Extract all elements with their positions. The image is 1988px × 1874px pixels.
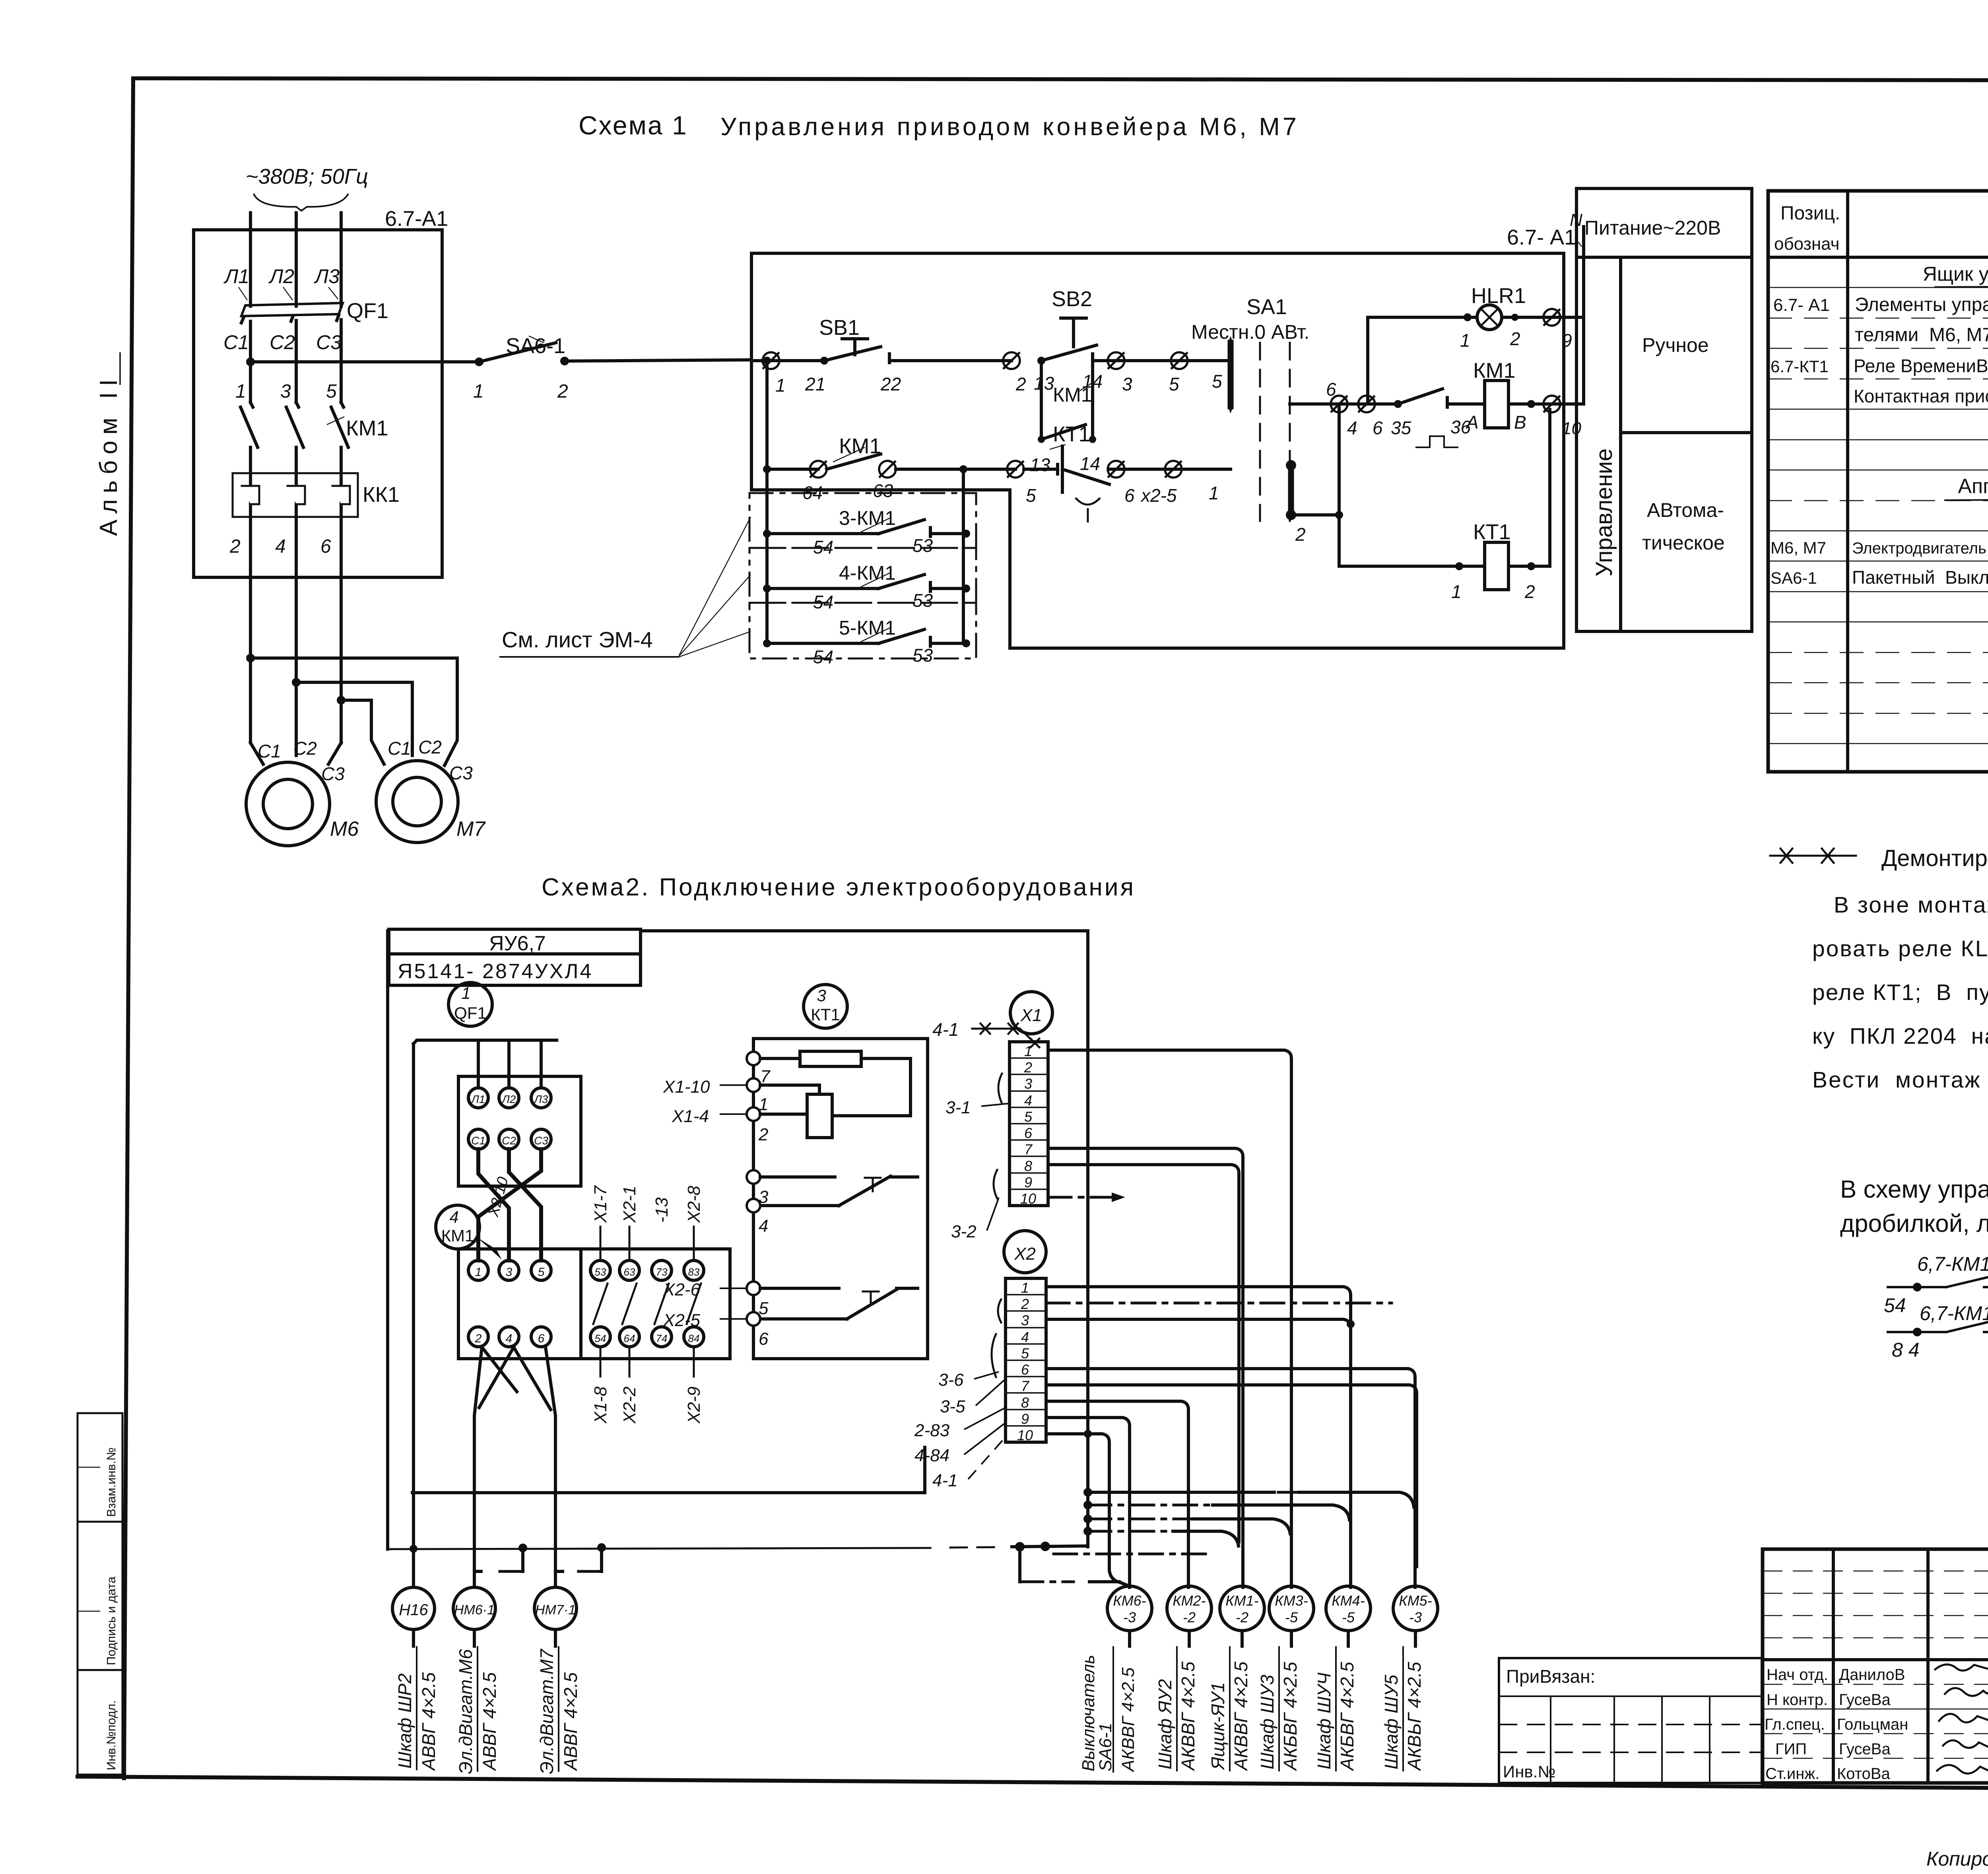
svg-text:Позиц.: Позиц. xyxy=(1780,203,1840,224)
svg-text:Аппаратура по месту: Аппаратура по месту xyxy=(1958,475,1988,498)
svg-text:Шкаф ШУ5: Шкаф ШУ5 xyxy=(1381,1674,1402,1769)
power supply header box xyxy=(1576,188,1752,257)
wire control tap xyxy=(250,360,479,363)
svg-text:1: 1 xyxy=(475,1266,482,1279)
svg-text:Инв.№подл.: Инв.№подл. xyxy=(104,1700,118,1770)
svg-text:ГусеВа: ГусеВа xyxy=(1839,1691,1891,1709)
resistor xyxy=(760,1051,911,1116)
cable label KM2-2 xyxy=(1155,1646,1198,1771)
wire M7 feed C1 xyxy=(341,700,384,764)
svg-text:83: 83 xyxy=(688,1266,700,1278)
dashed box 3-KM1 xyxy=(749,493,976,557)
svg-text:54: 54 xyxy=(813,647,833,667)
svg-text:~380В; 50Гц: ~380В; 50Гц xyxy=(246,165,368,188)
terminal 9 xyxy=(1543,309,1584,351)
svg-text:КМ1: КМ1 xyxy=(346,416,388,440)
svg-text:Х2-5: Х2-5 xyxy=(663,1311,700,1330)
cable label KM5-3 xyxy=(1381,1646,1425,1771)
svg-text:Схема2. Подключение электрообо: Схема2. Подключение электрооборудования xyxy=(542,874,1136,901)
svg-text:9: 9 xyxy=(1562,330,1572,351)
label 3-2 xyxy=(951,1170,999,1241)
svg-text:35: 35 xyxy=(1391,418,1411,438)
svg-text:3: 3 xyxy=(506,1266,513,1279)
svg-text:Шкаф ШУЧ: Шкаф ШУЧ xyxy=(1314,1672,1334,1769)
svg-text:1: 1 xyxy=(461,984,470,1002)
svg-text:-2: -2 xyxy=(1183,1609,1196,1625)
svg-text:63: 63 xyxy=(624,1266,635,1278)
note paragraph xyxy=(1812,892,1988,1093)
terminal labels C1 C2 C3 xyxy=(223,331,342,353)
svg-text:С1: С1 xyxy=(388,738,411,759)
svg-text:5: 5 xyxy=(1169,374,1179,394)
svg-text:ровать реле КL1, Вместо него у: ровать реле КL1, Вместо него устаноВить xyxy=(1812,936,1988,961)
svg-text:Эл.дВигат.М6: Эл.дВигат.М6 xyxy=(455,1649,476,1774)
svg-text:Местн.0 АВт.: Местн.0 АВт. xyxy=(1191,321,1309,343)
svg-text:74: 74 xyxy=(656,1332,668,1344)
svg-text:Гл.спец.: Гл.спец. xyxy=(1765,1716,1825,1733)
wire QF1 to KM1 bundle xyxy=(478,1149,541,1260)
relay KT1 detail box xyxy=(753,1039,928,1359)
wire feed horizontal xyxy=(414,1040,557,1044)
wire X2-9 xyxy=(1046,1418,1130,1587)
wire X1-8 xyxy=(1048,1165,1239,1542)
svg-text:2: 2 xyxy=(1024,1059,1032,1076)
svg-text:Х1-8: Х1-8 xyxy=(591,1387,610,1424)
left margin stamp column xyxy=(78,1413,122,1775)
parts row: motors M6 M7 xyxy=(1771,537,1988,557)
parts row: 6.7-A1 xyxy=(1773,294,1988,346)
svg-text:АВВГ 4×2.5: АВВГ 4×2.5 xyxy=(560,1672,581,1771)
svg-text:4: 4 xyxy=(449,1208,458,1226)
svg-text:SА6-1: SА6-1 xyxy=(506,334,565,358)
svg-text:3-6: 3-6 xyxy=(938,1370,964,1390)
svg-text:1: 1 xyxy=(1024,1043,1032,1059)
motor M6 xyxy=(246,738,359,846)
KT1 terminal 1 xyxy=(663,1077,768,1114)
svg-text:С2: С2 xyxy=(293,738,317,759)
svg-text:3: 3 xyxy=(280,381,291,402)
terminal 6 auto xyxy=(1358,396,1383,438)
wire H16 drop xyxy=(412,1044,415,1587)
svg-text:10: 10 xyxy=(1017,1427,1033,1443)
svg-text:Х2-9: Х2-9 xyxy=(684,1387,704,1424)
svg-text:3-КМ1: 3-КМ1 xyxy=(839,507,896,529)
svg-text:АВтома-: АВтома- xyxy=(1647,499,1724,521)
svg-text:Управление: Управление xyxy=(1591,449,1617,577)
svg-text:2: 2 xyxy=(1015,374,1026,394)
svg-text:ГусеВа: ГусеВа xyxy=(1839,1740,1891,1758)
terminal 10 xyxy=(1543,396,1584,438)
connector X2 callout xyxy=(1004,1231,1046,1273)
svg-text:1: 1 xyxy=(473,381,484,402)
connector X1 callout xyxy=(1010,992,1052,1034)
wire phase L1 upper xyxy=(249,213,252,306)
svg-text:2: 2 xyxy=(1021,1296,1029,1312)
svg-text:6: 6 xyxy=(1021,1361,1029,1378)
svg-text:-3: -3 xyxy=(1123,1609,1136,1625)
svg-text:Л3: Л3 xyxy=(534,1093,548,1105)
wire X2-1 xyxy=(1046,1287,1351,1587)
svg-text:6.7- А1: 6.7- А1 xyxy=(1507,225,1576,249)
svg-text:М7: М7 xyxy=(456,818,486,841)
contactor KM1 holding contact xyxy=(1030,361,1100,475)
svg-text:Контактная приставка ПКЛ-4004: Контактная приставка ПКЛ-4004 xyxy=(1854,386,1988,406)
svg-text:SВ2: SВ2 xyxy=(1052,287,1092,311)
svg-text:М6, М7: М6, М7 xyxy=(1771,538,1826,557)
svg-text:4: 4 xyxy=(1021,1329,1029,1345)
svg-text:КМ2-: КМ2- xyxy=(1173,1592,1206,1609)
svg-text:КК1: КК1 xyxy=(363,483,400,507)
svg-text:Инв.№: Инв.№ xyxy=(1503,1762,1555,1781)
KT1 terminal 4 xyxy=(747,1199,768,1236)
lamp HLR1 xyxy=(1471,284,1552,349)
wire M7 feed C3 xyxy=(250,658,457,765)
svg-text:3-5: 3-5 xyxy=(940,1397,965,1416)
callout KM1 xyxy=(436,1205,502,1260)
svg-text:54: 54 xyxy=(595,1332,606,1344)
svg-text:АКВВГ 4×2.5: АКВВГ 4×2.5 xyxy=(1118,1667,1138,1773)
svg-text:Х1-7: Х1-7 xyxy=(591,1185,610,1223)
svg-text:4-1: 4-1 xyxy=(932,1471,958,1490)
svg-text:дробилкой, лист ЭМ-3: дробилкой, лист ЭМ-3 xyxy=(1840,1210,1988,1237)
svg-text:ПриВязан:: ПриВязан: xyxy=(1506,1666,1595,1687)
label 3-6 xyxy=(938,1299,1001,1390)
svg-text:Схема 1: Схема 1 xyxy=(579,111,688,140)
svg-text:КМ5-: КМ5- xyxy=(1399,1592,1432,1609)
wire phase segments below QF1 xyxy=(250,320,341,402)
svg-text:6: 6 xyxy=(759,1329,769,1349)
svg-text:С2: С2 xyxy=(418,737,442,757)
svg-text:ДанилоВ: ДанилоВ xyxy=(1839,1666,1905,1684)
svg-text:Н16: Н16 xyxy=(399,1601,428,1619)
svg-text:Л1: Л1 xyxy=(223,265,249,287)
svg-text:53: 53 xyxy=(912,590,933,611)
svg-text:1: 1 xyxy=(1451,581,1462,602)
parts row: 6.7-KT1 xyxy=(1771,355,1988,376)
svg-text:Н контр.: Н контр. xyxy=(1767,1691,1828,1709)
svg-text:3-1: 3-1 xyxy=(945,1098,971,1117)
svg-text:Л3: Л3 xyxy=(314,265,340,287)
svg-text:Л1: Л1 xyxy=(471,1093,485,1105)
svg-text:5: 5 xyxy=(1021,1345,1029,1361)
cable label H16 xyxy=(394,1646,439,1771)
svg-text:-5: -5 xyxy=(1342,1609,1355,1625)
KT1 terminal 3 xyxy=(747,1170,769,1207)
bus demontage 2 xyxy=(1083,1501,1349,1520)
svg-text:3-2: 3-2 xyxy=(951,1222,977,1241)
svg-text:9: 9 xyxy=(1021,1411,1029,1427)
svg-text:В схему упраВления: В схему упраВления xyxy=(1840,1176,1988,1203)
svg-text:53: 53 xyxy=(912,535,933,556)
svg-text:АКБВГ 4×2.5: АКБВГ 4×2.5 xyxy=(1337,1662,1357,1771)
svg-text:Вести монтаж согласно схем: Вести монтаж согласно схеме 2 xyxy=(1812,1067,1988,1093)
svg-text:6.7-КТ1: 6.7-КТ1 xyxy=(1771,357,1829,376)
label 3-1 xyxy=(945,1074,1010,1117)
label 4-84 xyxy=(914,1423,1006,1465)
title block outline xyxy=(1763,1549,1988,1783)
dashed box 4-KM1 xyxy=(749,548,976,612)
box header YaU6,7 xyxy=(389,929,641,955)
cable circle H16 xyxy=(392,1587,435,1646)
svg-text:КМ6-: КМ6- xyxy=(1113,1592,1146,1609)
svg-text:53: 53 xyxy=(912,645,933,666)
KT1 terminal 7 xyxy=(747,1052,771,1086)
wire KM1 to NM6 xyxy=(474,1347,514,1587)
svg-text:6: 6 xyxy=(1124,485,1135,506)
wire SA1 jumper xyxy=(1291,513,1339,517)
svg-text:7: 7 xyxy=(1021,1378,1030,1394)
cable circle KM5-3 xyxy=(1393,1586,1438,1646)
svg-text:Л2: Л2 xyxy=(501,1093,516,1105)
KT1 terminal 2 xyxy=(672,1107,807,1144)
terminal labels L1 L2 L3 xyxy=(223,265,340,300)
svg-text:Взам.инв.№: Взам.инв.№ xyxy=(104,1447,118,1517)
motor M7 xyxy=(376,737,486,843)
pole numbers 2 4 6 xyxy=(229,536,331,557)
control box 6.7-A1 outline xyxy=(751,225,1576,648)
svg-text:Х1-4: Х1-4 xyxy=(672,1107,709,1126)
svg-text:С3: С3 xyxy=(449,763,473,783)
parts row: control box title xyxy=(1923,263,1988,287)
schema 2 title xyxy=(542,874,1136,901)
svg-text:54: 54 xyxy=(1884,1294,1906,1317)
svg-text:х2-5: х2-5 xyxy=(1140,485,1177,506)
svg-text:В зоне монтажа В ящике ЯУ6, 7:: В зоне монтажа В ящике ЯУ6, 7: демонти- xyxy=(1834,892,1988,918)
connector X2 strip xyxy=(1006,1278,1046,1443)
terminal 5 xyxy=(1169,352,1222,394)
title block revision rows xyxy=(1763,1571,1988,1758)
svg-text:Копировал: Бабаева: Копировал: Бабаева xyxy=(1926,1848,1988,1870)
svg-text:КМ1: КМ1 xyxy=(441,1226,474,1245)
svg-text:В: В xyxy=(1514,412,1526,433)
svg-text:Управления приводом конвейера: Управления приводом конвейера М6, М7 xyxy=(720,113,1299,141)
KM1 terminal box xyxy=(458,1249,581,1359)
KT1 break contact xyxy=(760,1176,918,1206)
svg-text:Подпись и дата: Подпись и дата xyxy=(104,1576,118,1665)
pole numbers 1 3 5 xyxy=(235,381,337,402)
svg-text:6.7-А1: 6.7-А1 xyxy=(385,207,448,231)
wire phase 2 to motors xyxy=(292,577,301,755)
cable circle KM4-5 xyxy=(1326,1586,1371,1646)
wire to terminal 6 xyxy=(1339,402,1367,406)
svg-text:4-1: 4-1 xyxy=(932,1019,959,1040)
terminal 5 rung2 xyxy=(1007,461,1036,506)
wire rung2 to X2-5 xyxy=(1116,468,1231,471)
svg-text:Нач отд.: Нач отд. xyxy=(1767,1666,1828,1684)
svg-text:6: 6 xyxy=(320,536,331,557)
svg-text:64: 64 xyxy=(624,1332,635,1344)
svg-text:5: 5 xyxy=(1026,485,1036,506)
svg-text:2: 2 xyxy=(1510,328,1520,349)
svg-text:Выключатель: Выключатель xyxy=(1079,1655,1098,1771)
contact 6.7-KM1 upper xyxy=(1884,1253,1988,1317)
svg-text:6,7-КМ1: 6,7-КМ1 xyxy=(1920,1302,1988,1324)
see sheet EM-4 note xyxy=(499,517,751,657)
svg-text:НLR1: НLR1 xyxy=(1471,284,1526,308)
coil KT1 detail xyxy=(760,1085,911,1138)
node on phase 1 xyxy=(246,357,255,366)
box 6.7-A1 xyxy=(194,207,448,577)
time relay KT1 closing contact xyxy=(1367,389,1485,447)
svg-text:Х1-10: Х1-10 xyxy=(663,1077,710,1097)
cable label KM3-5 xyxy=(1257,1646,1301,1771)
svg-text:КТ1: КТ1 xyxy=(1473,520,1510,544)
svg-text:С1: С1 xyxy=(223,331,249,353)
svg-text:SА1: SА1 xyxy=(1246,295,1287,319)
cable label KM1-2 xyxy=(1208,1646,1251,1771)
svg-text:9: 9 xyxy=(1024,1174,1032,1190)
bus demontage 1 xyxy=(1083,1488,1414,1507)
svg-text:Шкаф ЯУ2: Шкаф ЯУ2 xyxy=(1155,1679,1175,1769)
parts table outline xyxy=(1768,191,1988,772)
coil KT1 xyxy=(1473,410,1550,602)
svg-text:Х2-6: Х2-6 xyxy=(663,1280,700,1299)
KM1 aux contact box xyxy=(581,1249,730,1359)
wire X1-7 xyxy=(1048,1148,1243,1587)
svg-text:4: 4 xyxy=(1347,418,1357,438)
wire phase segments below KM1 xyxy=(250,447,341,577)
supply label ~380V 50Hz xyxy=(246,165,368,211)
button SB2 xyxy=(1034,287,1116,394)
svg-text:Шкаф ШУ3: Шкаф ШУ3 xyxy=(1257,1674,1277,1769)
svg-text:КотоВа: КотоВа xyxy=(1837,1765,1890,1783)
svg-text:2: 2 xyxy=(1524,581,1535,602)
terminal 4 xyxy=(1331,396,1357,438)
cable circle KM6-3 xyxy=(1107,1586,1152,1646)
label 3-5 xyxy=(940,1379,1006,1416)
connector X1 strip xyxy=(1010,1042,1048,1207)
wire main rung xyxy=(751,359,824,362)
aux labels bottom xyxy=(591,1348,704,1424)
svg-text:2: 2 xyxy=(229,536,241,557)
svg-text:73: 73 xyxy=(656,1266,668,1278)
wire 4-1 demontage xyxy=(932,1019,1039,1047)
svg-text:3: 3 xyxy=(1021,1312,1029,1328)
svg-text:Х2: Х2 xyxy=(1014,1244,1036,1264)
svg-text:См. лист ЭМ-4: См. лист ЭМ-4 xyxy=(502,627,653,652)
cable label KM4-5 xyxy=(1314,1646,1357,1771)
svg-text:6,7-КМ1: 6,7-КМ1 xyxy=(1917,1253,1988,1275)
svg-text:Электродвигатель 4А80А6У3 ; ~3: Электродвигатель 4А80А6У3 ; ~380В ; 0.75… xyxy=(1852,540,1988,557)
svg-text:А: А xyxy=(1465,412,1479,433)
svg-text:5: 5 xyxy=(1212,371,1222,392)
svg-text:-13: -13 xyxy=(652,1197,672,1223)
svg-text:1: 1 xyxy=(235,381,246,402)
wire QF1 drops xyxy=(478,1040,541,1088)
svg-text:КМ1: КМ1 xyxy=(839,434,881,458)
svg-text:-2: -2 xyxy=(1236,1609,1248,1625)
wire X2-2 demontage xyxy=(1046,1302,1392,1305)
wire X1-1 xyxy=(1048,1050,1291,1587)
svg-text:М6: М6 xyxy=(330,818,359,841)
long bottom wire xyxy=(388,1542,1088,1553)
svg-text:6.7- А1: 6.7- А1 xyxy=(1773,295,1830,315)
svg-text:1: 1 xyxy=(775,375,786,396)
svg-text:АКВВГ 4×2.5: АКВВГ 4×2.5 xyxy=(1178,1661,1198,1771)
svg-text:КМ3-: КМ3- xyxy=(1275,1592,1308,1609)
KT1 make contact xyxy=(760,1288,918,1319)
svg-text:Л2: Л2 xyxy=(268,265,294,287)
circuit breaker QF1 xyxy=(241,299,388,323)
frame bottom border xyxy=(78,1777,1988,1791)
wire auto feed rung xyxy=(1290,379,1339,404)
cable circle KM2-2 xyxy=(1167,1586,1211,1646)
svg-text:13: 13 xyxy=(1030,454,1050,475)
svg-text:реле КТ1; В пускателе КМ1: реле КТ1; В пускателе КМ1 заменить прист… xyxy=(1812,980,1988,1005)
svg-text:22: 22 xyxy=(880,374,901,394)
wire X2-6 xyxy=(1046,1369,1415,1587)
svg-text:SА6-1: SА6-1 xyxy=(1771,569,1817,587)
svg-text:8: 8 xyxy=(1021,1394,1029,1411)
svg-text:Х2-2: Х2-2 xyxy=(620,1387,639,1424)
parts table row lines xyxy=(1768,287,1988,744)
stub to KM6 demontage xyxy=(1020,1547,1119,1582)
svg-text:Ящик управления Я5141-2874УХЛ4: Ящик управления Я5141-2874УХЛ4 xyxy=(1923,263,1988,285)
svg-text:53: 53 xyxy=(595,1266,606,1278)
attachment box xyxy=(1499,1658,1762,1783)
svg-text:5: 5 xyxy=(1024,1109,1033,1125)
contact 6.7-KM1 lower xyxy=(1888,1302,1988,1361)
parts table header xyxy=(1774,203,1988,254)
KT1 terminal 6 xyxy=(663,1311,769,1349)
svg-text:КМ4-: КМ4- xyxy=(1332,1592,1365,1609)
time relay KT1 contact xyxy=(1024,422,1116,522)
bus demontage 4 xyxy=(1083,1527,1239,1546)
schema 1 title xyxy=(579,111,1299,141)
svg-text:С2: С2 xyxy=(270,331,295,353)
button SB1 xyxy=(805,316,1011,394)
svg-text:63: 63 xyxy=(873,480,893,501)
svg-text:10: 10 xyxy=(1020,1190,1036,1207)
wire phase 1 to motors xyxy=(246,577,263,764)
wire M7 feed C2 xyxy=(296,682,412,755)
svg-text:1: 1 xyxy=(1021,1280,1029,1296)
svg-text:Я5141- 2874УХЛ4: Я5141- 2874УХЛ4 xyxy=(398,960,593,983)
box header type xyxy=(389,954,641,985)
legend demontage symbol xyxy=(1770,845,1988,871)
cable circle KM1-2 xyxy=(1220,1586,1264,1646)
frame left border xyxy=(124,78,133,1778)
svg-text:4: 4 xyxy=(1024,1092,1032,1109)
terminal 6 rung2 xyxy=(1108,461,1135,506)
wire rung to 5 xyxy=(1116,359,1231,362)
copied-by note xyxy=(1926,1848,1988,1870)
svg-text:8: 8 xyxy=(1024,1158,1032,1174)
svg-text:С1: С1 xyxy=(258,741,281,761)
svg-text:КТ1: КТ1 xyxy=(1053,422,1090,446)
wire X2-7 xyxy=(1046,1385,1417,1567)
svg-text:Х2-8: Х2-8 xyxy=(684,1186,704,1223)
svg-text:Ст.инж.: Ст.инж. xyxy=(1765,1765,1819,1783)
svg-text:1: 1 xyxy=(1209,483,1219,503)
cable label NM6-1 xyxy=(455,1646,500,1774)
svg-text:QF1: QF1 xyxy=(347,299,388,323)
dash bus lower xyxy=(1054,1553,1213,1556)
cable label NM7-1 xyxy=(536,1646,581,1774)
neutral wire N xyxy=(1570,210,1584,404)
svg-text:5: 5 xyxy=(538,1266,545,1279)
svg-text:Ручное: Ручное xyxy=(1642,334,1709,356)
frame top border xyxy=(133,78,1988,81)
svg-text:3: 3 xyxy=(1024,1076,1032,1092)
selector SA1 xyxy=(1191,295,1309,545)
svg-text:SВ1: SВ1 xyxy=(819,316,860,340)
svg-text:АКБВГ 4×2.5: АКБВГ 4×2.5 xyxy=(1280,1662,1301,1771)
svg-text:АВВГ 4×2.5: АВВГ 4×2.5 xyxy=(418,1672,439,1771)
wire KM1 to NM7 xyxy=(482,1347,555,1587)
svg-text:5: 5 xyxy=(326,381,337,402)
thermal relay KK1 xyxy=(233,473,400,517)
